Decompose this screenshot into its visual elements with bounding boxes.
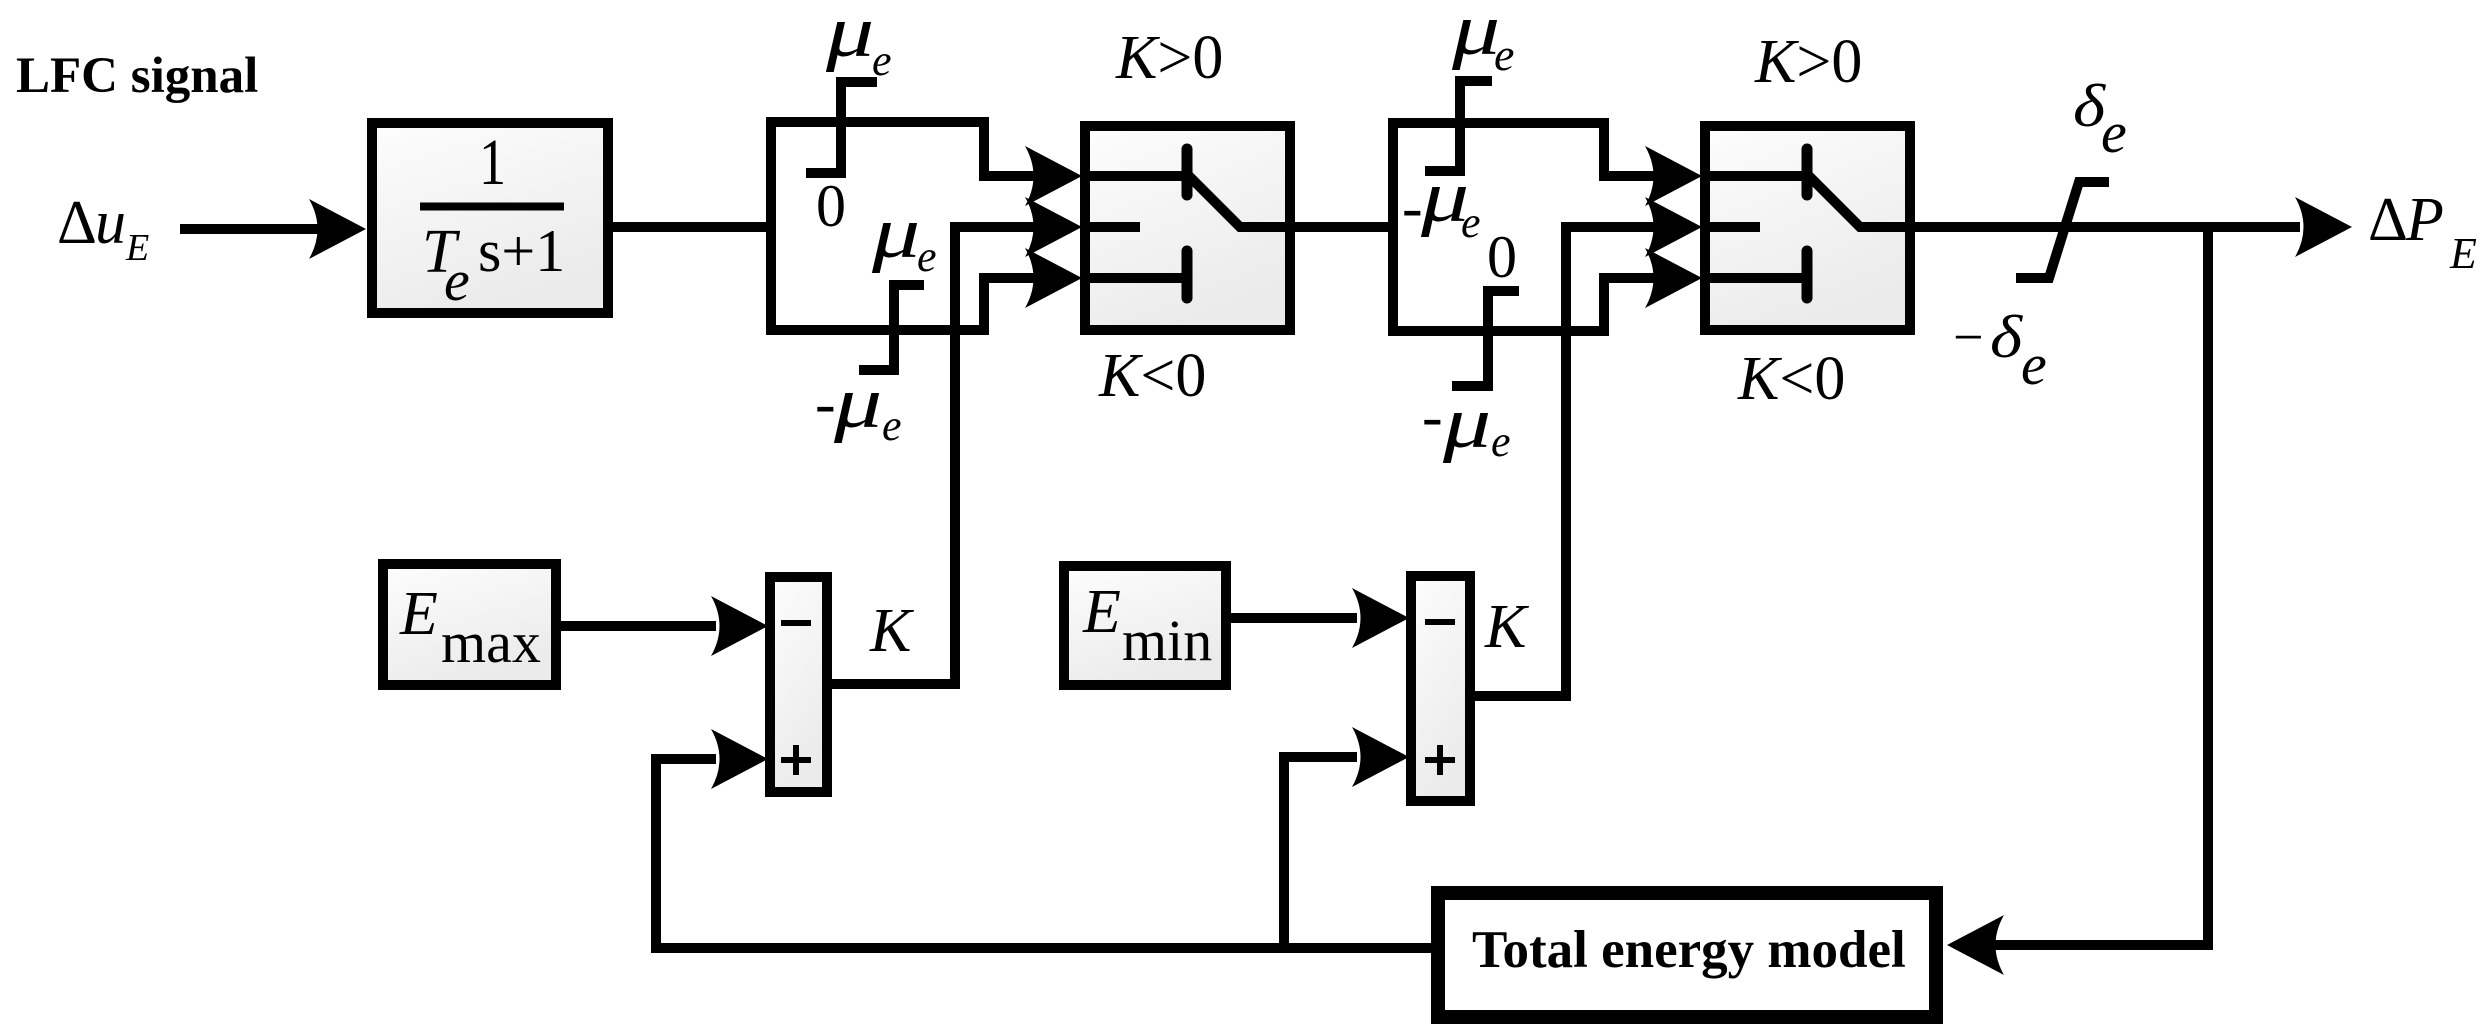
arrowhead DZ1 bottom into switch 1 (1025, 248, 1082, 308)
svg-text:e: e (1491, 417, 1511, 466)
svg-text:1: 1 (479, 126, 506, 199)
wire: DZ2 bottom output to switch 2 (1599, 273, 1660, 283)
label μe upper (DZ2) (1451, 0, 1515, 80)
svg-text:E: E (2449, 229, 2477, 278)
saturation icon upper (DZ1) (806, 82, 877, 173)
svg-text:e: e (1461, 198, 1481, 247)
svg-text:μ: μ (825, 0, 874, 72)
wire: E_max to junction J1 minus input (561, 621, 716, 631)
label μe lower (DZ1) (871, 191, 937, 281)
block SW2: switch (1705, 126, 1910, 330)
svg-text:−: − (1953, 307, 1983, 367)
arrowhead K2 control into switch 2 (1645, 197, 1702, 257)
svg-text:μ: μ (1451, 0, 1500, 70)
svg-text:e: e (2101, 100, 2127, 165)
wire: switch 1 output to dead-zone block 2 (1290, 222, 1393, 232)
label δe (2073, 72, 2127, 165)
rate limiter symbol (2016, 182, 2109, 278)
svg-text:e: e (882, 401, 902, 450)
node input label Δu_E (57, 189, 149, 269)
block DZ1: dead-zone open box (771, 122, 984, 330)
block SW1: switch (1085, 126, 1290, 330)
saturation icon lower (DZ1) (859, 285, 924, 370)
label -δe (1953, 303, 2047, 397)
svg-text:e: e (872, 36, 892, 85)
arrowhead output ΔP_E (2295, 197, 2352, 257)
wire: DZ1 bottom output to switch 1 (979, 273, 1040, 283)
arrowhead E_max into J1 (711, 596, 768, 656)
svg-text:Δ: Δ (57, 189, 97, 257)
svg-text:-: - (815, 370, 836, 438)
svg-text:μ: μ (1442, 381, 1491, 463)
svg-text:K>0: K>0 (1754, 28, 1862, 96)
wire: input Δu_E to transfer function (180, 224, 320, 234)
label -μe (DZ2 inner) (1402, 155, 1481, 247)
arrowhead into transfer function (309, 199, 366, 259)
arrowhead bus into J1 plus (711, 729, 768, 789)
arrowhead E_min into J2 (1352, 588, 1409, 648)
svg-text:-: - (1402, 174, 1423, 242)
svg-text:μ: μ (833, 361, 882, 443)
arrowhead DZ1 top into switch 1 (1025, 146, 1082, 206)
svg-text:E: E (125, 227, 149, 269)
svg-text:E: E (399, 580, 438, 648)
wire: K1 control from junction J1 up into switch 1 (827, 227, 1040, 684)
block J1: summing junction (770, 577, 827, 792)
svg-text:K<0: K<0 (1737, 345, 1845, 413)
svg-text:0: 0 (816, 173, 846, 239)
arrowhead bus into J2 plus (1352, 727, 1409, 787)
svg-text:e: e (917, 232, 937, 281)
wire: feedback branch down from output line (1995, 227, 2208, 945)
saturation icon lower (DZ2) (1452, 291, 1519, 386)
svg-text:min: min (1122, 608, 1212, 673)
wire: DZ1 top output to switch 1 (979, 171, 1040, 181)
svg-text:LFC signal: LFC signal (16, 48, 258, 104)
svg-text:K: K (1484, 593, 1530, 661)
block E_min (1064, 566, 1226, 685)
block J2: summing junction (1411, 576, 1470, 801)
svg-text:s+1: s+1 (478, 218, 565, 284)
svg-text:K<0: K<0 (1098, 342, 1206, 410)
svg-text:u: u (95, 189, 126, 257)
block E_max (383, 564, 556, 685)
arrowhead feedback into total energy model (1947, 915, 2004, 975)
label -μe (DZ1 below) (815, 361, 902, 450)
svg-text:Δ: Δ (2368, 186, 2408, 254)
svg-text:δ: δ (1990, 303, 2023, 370)
svg-text:0: 0 (1487, 224, 1517, 290)
label μe upper (DZ1) (825, 0, 892, 85)
svg-text:e: e (1494, 29, 1514, 80)
block DZ2: dead-zone open box (1393, 123, 1604, 331)
arrowhead K1 control into switch 1 (1025, 197, 1082, 257)
wire: switch 2 output through rate limiter to ΔP_E (1910, 222, 2300, 232)
svg-text:μ: μ (871, 191, 920, 273)
svg-text:e: e (444, 248, 470, 313)
wire: E_min to junction J2 minus input (1226, 613, 1357, 623)
svg-text:max: max (441, 610, 541, 675)
svg-text:E: E (1082, 578, 1121, 646)
block U1: transfer function 1/(Te s+1) (372, 123, 608, 313)
wire: bus branch up to J2 plus input (1284, 757, 1357, 948)
label -μe (DZ2 below) (1422, 381, 1511, 466)
arrowhead DZ2 top into switch 2 (1645, 146, 1702, 206)
svg-text:-: - (1422, 383, 1443, 451)
block: Total energy model (1438, 893, 1936, 1017)
svg-text:K: K (869, 597, 915, 665)
node output label ΔP_E (2368, 186, 2477, 278)
wire: total energy model output (bottom bus) (656, 759, 1434, 948)
arrowhead DZ2 bottom into switch 2 (1645, 248, 1702, 308)
wire: DZ2 top output to switch 2 (1599, 171, 1660, 181)
svg-text:Total energy model: Total energy model (1472, 921, 1906, 979)
svg-text:K>0: K>0 (1115, 24, 1223, 92)
wire: K2 control from junction J2 up into switch 2 (1470, 227, 1660, 696)
svg-text:e: e (2021, 332, 2047, 397)
wire: transfer function output to dead-zone block 1 (608, 222, 771, 232)
svg-text:P: P (2405, 186, 2444, 254)
saturation icon upper (DZ2) (1425, 81, 1492, 171)
